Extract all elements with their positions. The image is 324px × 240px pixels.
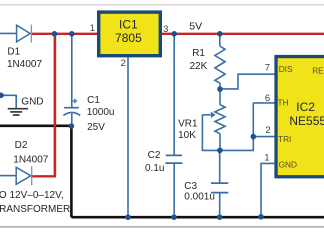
svg-text:0.001u: 0.001u [184,192,215,203]
svg-text:6: 6 [265,93,270,104]
svg-text:3: 3 [163,24,168,35]
svg-text:C3: C3 [184,181,197,192]
svg-text:TH: TH [278,98,289,108]
svg-text:TO 12V–0–12V,: TO 12V–0–12V, [0,190,64,201]
svg-text:VR1: VR1 [178,118,198,129]
svg-text:D1: D1 [7,47,20,58]
svg-text:NE555: NE555 [289,114,324,128]
svg-text:C1: C1 [87,95,100,106]
svg-text:DIS: DIS [279,64,293,74]
svg-text:TRI: TRI [278,134,291,144]
svg-text:1N4007: 1N4007 [7,59,42,70]
svg-text:C2: C2 [148,150,161,161]
svg-text:R1: R1 [192,48,205,59]
svg-text:1N4007: 1N4007 [13,155,48,166]
svg-text:25V: 25V [87,122,105,133]
svg-text:7: 7 [265,63,270,74]
svg-text:2: 2 [265,125,270,136]
svg-text:TRANSFORMER: TRANSFORMER [0,204,70,215]
svg-text:GND: GND [279,160,297,170]
svg-text:GND: GND [21,96,43,107]
svg-text:1: 1 [264,152,269,163]
svg-text:7805: 7805 [115,31,142,45]
svg-text:22K: 22K [190,61,208,72]
svg-text:2: 2 [121,58,126,69]
svg-text:10K: 10K [178,130,196,141]
svg-text:IC1: IC1 [119,18,138,32]
svg-text:RES: RES [312,66,324,76]
svg-text:0.1u: 0.1u [145,163,164,174]
svg-text:IC2: IC2 [296,100,315,114]
svg-text:1000u: 1000u [87,107,115,118]
svg-text:D2: D2 [15,140,28,151]
svg-text:5V: 5V [189,20,202,32]
svg-text:1: 1 [90,23,95,34]
